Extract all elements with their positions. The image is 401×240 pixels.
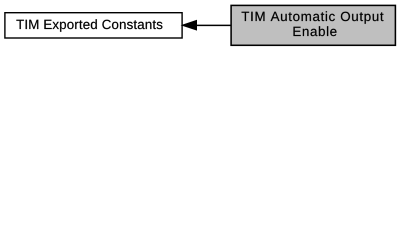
edge wire (shaft) bbox=[197, 24, 231, 26]
node: TIM Exported Constants (label text) bbox=[16, 19, 162, 32]
node: TIM Exported Constants (box) bbox=[5, 13, 182, 38]
node: TIM Automatic Output Enable (box) bbox=[231, 5, 395, 45]
node: TIM Automatic Output Enable (label line 1 text) bbox=[242, 11, 384, 23]
background bbox=[0, 0, 401, 51]
node: TIM Automatic Output Enable (label line 2 text) bbox=[294, 26, 337, 36]
edge arrowhead bbox=[181, 20, 197, 31]
